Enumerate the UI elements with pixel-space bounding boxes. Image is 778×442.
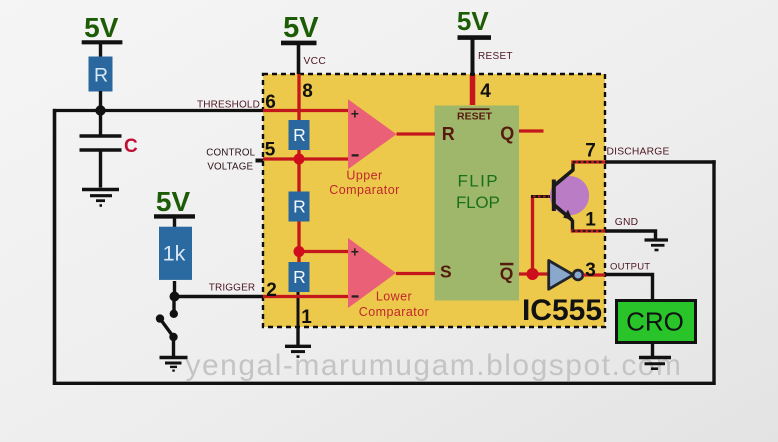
svg-text:R: R <box>442 124 455 144</box>
svg-text:CONTROL: CONTROL <box>206 147 255 158</box>
node: divider junction lower <box>294 246 305 257</box>
wire: upper comparator output to R <box>397 132 436 135</box>
svg-text:CRO: CRO <box>626 307 684 337</box>
ground under capacitor <box>82 190 119 206</box>
CRO box <box>617 301 696 343</box>
svg-text:S: S <box>440 262 452 282</box>
wire: control voltage red to - input <box>263 157 348 160</box>
wire: Qbar to inverter <box>519 272 549 275</box>
wire: switch to ground <box>172 337 175 356</box>
svg-text:1k: 1k <box>163 242 186 266</box>
flip-flop label <box>456 171 500 211</box>
wire: capacitor to ground <box>99 152 102 188</box>
svg-text:5: 5 <box>265 140 276 161</box>
svg-text:VCC: VCC <box>304 56 327 67</box>
svg-text:OUTPUT: OUTPUT <box>610 262 650 273</box>
resistor R3 internal <box>289 262 310 292</box>
wire: output pin3 external to CRO <box>605 275 653 301</box>
wire: divider chain below R3 (black to pin1) <box>297 291 300 346</box>
switch S1 <box>156 310 178 342</box>
svg-text:TRIGGER: TRIGGER <box>209 283 256 294</box>
ground under CRO <box>639 358 671 369</box>
wire: Q output stub <box>519 129 544 132</box>
wire: reset red thick from pin4 <box>470 75 476 105</box>
svg-text:+: + <box>351 244 359 260</box>
svg-text:RESET: RESET <box>457 111 493 123</box>
svg-text:2: 2 <box>266 280 277 301</box>
wire: gnd pin1 external <box>605 231 656 239</box>
wire: black dashes overlay pin7 <box>573 161 604 163</box>
flip-flop pin Qbar <box>500 263 514 284</box>
lower comparator U3 <box>348 238 396 308</box>
wire: divider to lower comparator + input <box>299 250 348 253</box>
svg-text:5V: 5V <box>84 12 119 43</box>
wire: lower comparator output to S <box>396 272 435 275</box>
svg-text:R: R <box>293 267 306 287</box>
node: Qbar junction <box>527 268 539 280</box>
svg-text:Lower: Lower <box>376 290 412 304</box>
svg-text:5V: 5V <box>156 186 191 217</box>
ground under IC pin 1 <box>285 327 311 357</box>
svg-text:7: 7 <box>585 141 596 162</box>
svg-text:FLIP: FLIP <box>457 171 499 190</box>
wire: R to threshold node <box>99 91 102 112</box>
upper comparator U1 <box>348 99 397 169</box>
svg-text:R: R <box>94 65 108 87</box>
node: divider junction at pin5 <box>294 154 305 165</box>
wire: divider chain R1-R2 <box>297 149 300 193</box>
svg-text:RESET: RESET <box>478 51 513 62</box>
wire: trigger red inside IC to - input <box>263 295 348 298</box>
svg-text:+: + <box>351 106 359 122</box>
svg-text:5V: 5V <box>283 12 319 44</box>
resistor R2 internal <box>289 192 310 222</box>
wire: black dashes overlay pin1 <box>573 230 605 232</box>
svg-text:GND: GND <box>615 217 638 228</box>
wire: right vertical drop <box>712 160 715 385</box>
svg-text:THRESHOLD: THRESHOLD <box>197 100 260 111</box>
pin5 stub <box>256 159 264 163</box>
wire: threshold line <box>53 109 263 112</box>
wire: 1k to trigger node <box>173 281 176 297</box>
wire: inverter output red to pin3 <box>584 273 606 276</box>
svg-text:Q: Q <box>500 264 514 284</box>
wire: left vertical drop <box>53 109 57 385</box>
wire: threshold red inside IC to + input <box>263 109 348 112</box>
flip-flop RESET input label <box>457 108 493 122</box>
lower comparator label <box>359 290 430 320</box>
svg-text:8: 8 <box>302 81 313 102</box>
svg-text:VOLTAGE: VOLTAGE <box>207 162 253 173</box>
wire: emitter down to pin1 line <box>571 220 574 230</box>
wire: discharge pin7 external <box>605 160 716 163</box>
svg-text:R: R <box>293 197 306 217</box>
upper comparator label <box>329 168 400 197</box>
wire: trigger line <box>175 295 264 298</box>
node: trigger junction <box>170 292 180 302</box>
inverter U4 output buffer <box>549 261 583 290</box>
transistor Q1 discharge <box>550 170 589 221</box>
wire: junction to capacitor <box>99 111 102 135</box>
wire: red overlay base <box>533 196 549 198</box>
svg-text:6: 6 <box>265 92 276 113</box>
wire: VCC red into divider chain <box>297 74 300 121</box>
svg-text:Upper: Upper <box>346 168 382 182</box>
svg-text:R: R <box>293 125 306 145</box>
5V supply for RESET (pin 4) <box>457 6 491 76</box>
capacitor C1 <box>80 136 122 150</box>
svg-text:4: 4 <box>480 81 491 102</box>
svg-text:C: C <box>124 136 138 157</box>
IC555 body <box>263 74 605 327</box>
svg-text:IC555: IC555 <box>522 294 602 327</box>
ground at pin1 <box>645 240 669 250</box>
resistor R external <box>89 57 113 92</box>
wire: Qbar junction up to transistor base (red riser) <box>531 196 534 274</box>
svg-text:DISCHARGE: DISCHARGE <box>607 146 670 157</box>
wire: CRO to ground <box>651 342 654 356</box>
svg-text:yengal-marumugam.blogspot.com: yengal-marumugam.blogspot.com <box>185 349 682 382</box>
svg-text:5V: 5V <box>457 6 489 36</box>
svg-text:1: 1 <box>585 209 596 230</box>
wire: trigger node to switch <box>172 297 175 314</box>
svg-text:Comparator: Comparator <box>359 305 430 319</box>
wire: collector up to pin7 line <box>571 164 574 171</box>
wire: base horizontal black <box>531 195 553 198</box>
resistor R1 internal <box>289 120 310 150</box>
resistor 1k <box>159 227 192 280</box>
flip-flop U2 <box>435 106 520 301</box>
svg-text:1: 1 <box>301 307 312 328</box>
svg-text:FLOP: FLOP <box>456 193 500 212</box>
CONTROL VOLTAGE labels <box>206 147 255 172</box>
wire: divider chain R2-R3 <box>297 221 300 264</box>
svg-text:3: 3 <box>585 260 596 281</box>
svg-text:Comparator: Comparator <box>329 183 400 197</box>
ground under switch <box>160 358 188 371</box>
svg-text:Q: Q <box>500 124 514 144</box>
5V supply for VCC (pin 8) <box>281 12 319 74</box>
5V supply for 1k branch <box>154 186 195 228</box>
5V supply top-left <box>82 12 123 58</box>
wire: bottom return <box>53 382 716 385</box>
node: threshold junction <box>95 105 105 115</box>
